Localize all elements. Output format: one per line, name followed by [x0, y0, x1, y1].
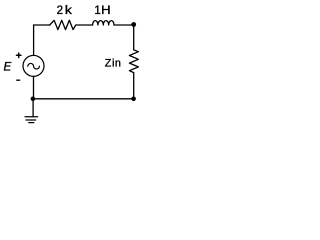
svg-text:Zin: Zin	[105, 58, 122, 70]
resistor Zin zigzag	[129, 50, 138, 73]
wire right vertical upper	[133, 24, 135, 49]
wire between resistor and inductor	[76, 24, 93, 26]
voltage source E circle	[23, 55, 44, 76]
junction dot bottom-left	[31, 97, 36, 102]
plus polarity mark	[17, 53, 21, 57]
wire top-left segment	[34, 24, 50, 26]
ground symbol	[25, 117, 37, 123]
wire bottom	[33, 98, 134, 100]
minus polarity mark	[17, 79, 20, 81]
ground stem wire	[32, 99, 34, 117]
svg-text:E: E	[4, 62, 12, 74]
sine wave inside source	[28, 63, 40, 68]
wire left vertical lower	[33, 76, 35, 98]
junction dot bottom-right	[131, 97, 136, 102]
svg-text:H: H	[101, 5, 111, 17]
wire right vertical lower	[133, 73, 135, 99]
svg-text:k: k	[65, 5, 72, 17]
wire inductor to top-right	[114, 24, 134, 26]
wire left vertical upper	[33, 25, 35, 55]
resistor 2k zigzag	[50, 20, 76, 29]
svg-text:1: 1	[94, 5, 100, 17]
svg-text:2: 2	[57, 5, 63, 17]
junction dot top-right	[131, 22, 136, 27]
inductor 1H coil	[93, 21, 114, 25]
